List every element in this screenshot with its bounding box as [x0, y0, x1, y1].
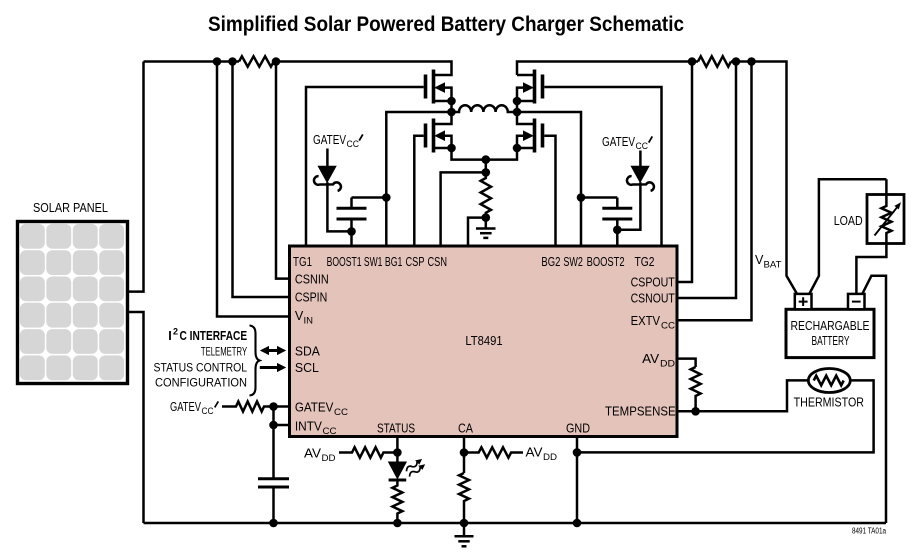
svg-text:EXTV: EXTV: [631, 314, 661, 328]
wire TEMPSENSE to thermistor: [678, 380, 808, 411]
wire BOOST1: [350, 231, 353, 246]
svg-text:CONFIGURATION: CONFIGURATION: [155, 376, 247, 390]
resistor R-TEMP divider: [691, 367, 701, 411]
svg-text:C INTERFACE: C INTERFACE: [180, 329, 248, 343]
node TEMPSENSE: [691, 407, 700, 416]
transistor M3 top-right NMOS: [513, 70, 662, 247]
svg-text:CA: CA: [458, 422, 474, 436]
wire cap to SW1 tap: [352, 196, 387, 199]
wire GND to thermistor return: [577, 380, 874, 452]
svg-text:STATUS: STATUS: [377, 422, 415, 436]
svg-text:SCL: SCL: [295, 361, 319, 375]
ground center: [476, 218, 496, 238]
svg-text:SW1: SW1: [364, 255, 383, 269]
wire CSP: [441, 172, 486, 246]
wire rail to M1 drain: [274, 62, 452, 76]
resistor R-CS center sense: [481, 172, 491, 217]
svg-text:BATTERY: BATTERY: [812, 334, 850, 348]
svg-text:BG1: BG1: [385, 255, 403, 269]
wire BOOST2: [616, 230, 619, 246]
svg-text:CC: CC: [202, 406, 214, 417]
svg-text:INTV: INTV: [295, 420, 323, 434]
capacitor C2 bootstrap right: [602, 198, 632, 230]
resistor R-STATUS pullup: [339, 447, 397, 457]
diode D1 schottky GATEVCC' left: [314, 149, 352, 232]
svg-text:CSN: CSN: [428, 255, 448, 269]
resistor R-CA lower: [459, 473, 469, 523]
node CSN: [482, 213, 491, 222]
wire CSPIN: [233, 62, 291, 298]
resistor R-CSIN input sense: [239, 56, 274, 66]
node CSNOUT tap: [732, 57, 741, 66]
svg-text:DD: DD: [660, 359, 675, 370]
transistor M4 bottom-right NMOS: [486, 112, 556, 246]
node GND rail: [573, 519, 582, 528]
svg-text:RECHARGABLE: RECHARGABLE: [791, 319, 870, 333]
node GND branch: [573, 448, 582, 457]
LED D3 STATUS: [389, 457, 427, 480]
svg-text:Simplified Solar Powered Batte: Simplified Solar Powered Battery Charger…: [208, 12, 684, 36]
resistor R-LOAD variable: [856, 179, 891, 293]
svg-text:CSNIN: CSNIN: [295, 273, 329, 287]
wire top-right rail: [517, 62, 698, 76]
svg-text:2: 2: [173, 327, 178, 337]
svg-text:AV: AV: [304, 447, 322, 461]
svg-text:TG1: TG1: [293, 255, 312, 269]
svg-text:BOOST2: BOOST2: [587, 255, 625, 269]
node BOOST2: [613, 226, 622, 235]
wire solar panel + to VIN rail: [128, 62, 144, 292]
capacitor C1 bootstrap left: [337, 198, 367, 232]
wire CA: [463, 437, 466, 473]
arrow SDA bidirectional: [260, 346, 286, 355]
svg-text:CSNOUT: CSNOUT: [631, 292, 675, 306]
node SW1 / L1 left: [447, 108, 456, 117]
svg-text:I: I: [168, 329, 172, 343]
node CSNIN tap: [272, 57, 281, 66]
svg-text:GATEV: GATEV: [170, 400, 201, 414]
svg-text:CC: CC: [334, 407, 348, 418]
capacitor C3 INTVCC: [258, 407, 289, 524]
inductor L1: [452, 105, 518, 112]
node SW2 bootstrap tap: [577, 193, 586, 202]
wire load top to battery plus: [810, 179, 887, 293]
thermistor RT1: [808, 369, 850, 393]
svg-text:CSP: CSP: [406, 255, 425, 269]
battery BT1 rechargable: [786, 294, 874, 358]
svg-text:TG2: TG2: [635, 255, 655, 269]
wire solar panel - to ground rail: [128, 312, 144, 523]
wire VIN: [217, 62, 290, 317]
svg-text:GATEV: GATEV: [313, 133, 346, 147]
resistor R-CSOUT output sense: [698, 56, 731, 66]
svg-text:IN: IN: [304, 316, 314, 327]
wire rail to VBAT: [731, 62, 797, 294]
node INTVCC: [269, 421, 278, 430]
svg-text:STATUS CONTROL: STATUS CONTROL: [154, 361, 248, 375]
svg-text:SDA: SDA: [295, 345, 321, 359]
wire battery minus to ground rail: [863, 276, 887, 523]
node SW2 / L1 right: [513, 108, 522, 117]
node SW1 bootstrap tap: [382, 193, 391, 202]
svg-text:TEMPSENSE: TEMPSENSE: [605, 405, 676, 419]
node LED to ground rail: [393, 519, 402, 528]
node center sense top: [482, 155, 491, 164]
wire sense top to CSP node: [485, 160, 488, 173]
svg-text:DD: DD: [543, 452, 557, 463]
svg-text:AV: AV: [642, 352, 660, 366]
svg-text:GATEV: GATEV: [602, 135, 635, 149]
wire top-left rail: [144, 60, 240, 63]
node STATUS: [393, 448, 402, 457]
svg-text:8491 TA01a: 8491 TA01a: [852, 527, 887, 536]
svg-text:SOLAR PANEL: SOLAR PANEL: [33, 201, 108, 215]
diode D2 schottky GATEVCC' right: [617, 151, 654, 230]
svg-text:THERMISTOR: THERMISTOR: [794, 396, 864, 410]
wire CSN: [468, 218, 486, 246]
node CA bottom: [460, 519, 469, 528]
resistor R-CA pullup: [464, 447, 523, 457]
node INTVCC cap to ground rail: [269, 519, 278, 528]
svg-text:CC: CC: [636, 141, 649, 152]
svg-text:CSPOUT: CSPOUT: [631, 276, 675, 290]
node BOOST1: [347, 227, 356, 236]
wire STATUS: [396, 437, 399, 462]
ground rail bottom: [144, 522, 887, 525]
wire CSNOUT: [678, 62, 736, 299]
ground symbol bottom: [455, 523, 474, 546]
svg-text:CC: CC: [661, 321, 675, 332]
transistor M2 bottom-left NMOS: [414, 112, 486, 246]
solar panel PV1: [18, 222, 128, 384]
svg-text:GND: GND: [566, 422, 590, 436]
arrow SCL input: [260, 363, 286, 372]
node EXTVCC tap: [747, 57, 756, 66]
wire GND: [576, 437, 579, 523]
svg-text:TELEMETRY: TELEMETRY: [201, 345, 247, 359]
svg-text:DD: DD: [322, 453, 336, 464]
svg-text:CC: CC: [347, 139, 360, 150]
svg-text:AV: AV: [526, 446, 544, 460]
node CSPIN tap: [228, 57, 237, 66]
wire EXTVCC: [678, 62, 752, 321]
node CSPOUT tap: [688, 57, 697, 66]
wire SW1: [386, 112, 451, 246]
wire CSPOUT: [678, 62, 692, 283]
wire INTVCC: [274, 424, 291, 427]
wire CSNIN: [276, 62, 290, 279]
transistor M1 top-left NMOS: [306, 70, 456, 247]
node GATEVCC/INTVCC junction: [269, 402, 278, 411]
svg-text:CSPIN: CSPIN: [295, 291, 327, 305]
node VIN tap: [213, 57, 222, 66]
svg-text:BOOST1: BOOST1: [327, 255, 362, 269]
svg-text:GATEV: GATEV: [295, 401, 334, 415]
svg-text:CC: CC: [323, 426, 337, 437]
node CA top: [460, 448, 469, 457]
svg-text:BAT: BAT: [764, 260, 782, 271]
resistor R-LED: [392, 480, 402, 523]
wire AVDD pin: [678, 359, 696, 367]
node CSP: [482, 168, 491, 177]
resistor R-GATEVCC: [222, 402, 290, 412]
load box: [834, 179, 904, 293]
IC U1 LT8491 body: [290, 246, 678, 437]
svg-text:LOAD: LOAD: [834, 214, 863, 228]
label I2C INTERFACE block: [154, 327, 248, 390]
svg-text:SW2: SW2: [563, 255, 583, 269]
svg-text:LT8491: LT8491: [465, 334, 502, 348]
wire SW2: [517, 112, 581, 246]
wire cap to SW2 tap: [581, 196, 617, 199]
brace I2C: [250, 326, 260, 396]
svg-text:BG2: BG2: [541, 255, 560, 269]
